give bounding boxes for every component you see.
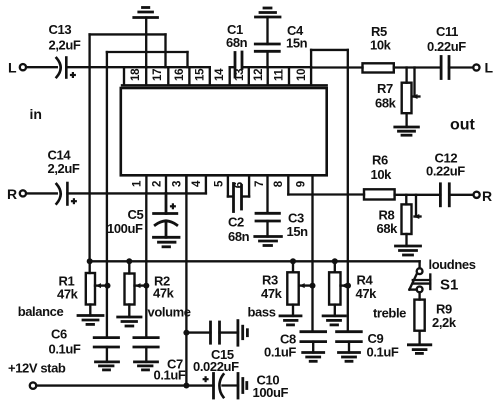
node R2 top junction	[126, 258, 132, 264]
ground (C3)	[255, 237, 282, 246]
wiper arrowhead R2	[135, 283, 141, 288]
wire R4 to ground	[334, 305, 336, 316]
resistor R7 (preset)	[402, 68, 420, 114]
wire stub to R8	[405, 195, 407, 205]
wire pin 4 edge down to +12V bus	[185, 175, 187, 385]
wire R1 to ground	[89, 305, 91, 316]
wire outer loop L input to pin 16	[90, 34, 166, 261]
pin box edges top row	[124, 67, 311, 85]
wire ground stem to pin 17	[145, 18, 147, 68]
svg-text:100uF: 100uF	[253, 385, 289, 400]
ground (R8)	[396, 246, 421, 255]
wire pin1/2 edge down through R2 wiper to C7	[145, 193, 147, 337]
svg-text:0.22uF: 0.22uF	[426, 164, 465, 179]
wiper arrowhead R4	[341, 283, 347, 288]
wire C9 to ground	[348, 342, 350, 353]
svg-text:L: L	[8, 60, 17, 76]
capacitor C5	[154, 193, 177, 237]
svg-text:17: 17	[152, 69, 164, 81]
svg-text:3: 3	[172, 181, 184, 187]
node R out terminal	[474, 192, 480, 198]
wire L input horizontal	[26, 66, 210, 68]
capacitor C12	[440, 184, 449, 206]
pin numbers bottom row	[132, 180, 308, 188]
svg-text:6: 6	[233, 182, 245, 188]
svg-text:C13: C13	[49, 22, 72, 37]
ground (C7)	[135, 362, 158, 370]
svg-text:+12V stab: +12V stab	[8, 361, 66, 376]
ground (R4)	[323, 316, 345, 325]
wire stub to R7	[405, 68, 407, 83]
ground (C10 sideways)	[238, 374, 247, 399]
capacitor C6	[94, 338, 118, 347]
ground (C6)	[96, 362, 119, 370]
wiper arrowhead R8	[414, 214, 420, 219]
wire R5 to C11 node	[394, 66, 441, 68]
wire R input horizontal	[26, 192, 206, 194]
svg-text:68n: 68n	[226, 35, 248, 50]
wire inner loop to pin 15	[107, 52, 188, 338]
svg-text:15n: 15n	[287, 224, 309, 239]
capacitor C1	[235, 52, 242, 77]
wire C10 to ground	[223, 384, 239, 386]
node L out terminal	[473, 64, 479, 70]
svg-text:R7: R7	[377, 81, 393, 96]
pin box edges bottom row	[146, 175, 206, 193]
svg-text:16: 16	[174, 69, 186, 81]
svg-text:0.1uF: 0.1uF	[154, 368, 186, 383]
capacitor C7	[134, 338, 158, 347]
svg-text:47k: 47k	[153, 286, 175, 301]
capacitor C3	[256, 213, 279, 221]
svg-text:68n: 68n	[228, 229, 250, 244]
label + C10	[203, 376, 209, 382]
node R1 wiper junction	[105, 283, 111, 289]
svg-text:in: in	[30, 106, 42, 122]
svg-text:R6: R6	[372, 153, 388, 168]
svg-text:2,2uF: 2,2uF	[49, 38, 81, 53]
ground (C9)	[339, 353, 360, 362]
wire pin 9 edge down to R3 wiper and C8	[311, 175, 313, 331]
capacitor C2	[234, 184, 242, 212]
pin 8 box edges	[268, 175, 289, 212]
svg-text:4: 4	[191, 180, 203, 187]
wiper arrowhead R3	[299, 283, 305, 288]
resistor R4 (treble pot)	[329, 261, 348, 304]
wire R9 to ground	[418, 331, 420, 345]
node R in terminal	[20, 190, 26, 196]
svg-text:2: 2	[152, 181, 164, 187]
svg-text:10: 10	[296, 69, 308, 81]
svg-text:0.1uF: 0.1uF	[264, 345, 296, 360]
op-amp IC U1 body	[121, 85, 327, 175]
svg-text:68k: 68k	[375, 96, 397, 111]
svg-text:14: 14	[214, 68, 226, 81]
ground (C15 sideways)	[238, 321, 248, 346]
wire C12 to R out	[449, 194, 473, 196]
wiper arrowhead R7	[412, 94, 418, 99]
svg-text:7: 7	[254, 181, 266, 187]
wire C11 to L out	[449, 66, 473, 68]
ground (above C4)	[256, 8, 281, 17]
capacitor C11	[441, 57, 449, 79]
resistor R5	[363, 63, 394, 72]
svg-text:C5: C5	[128, 207, 144, 222]
svg-text:13: 13	[234, 69, 246, 81]
svg-text:0.022uF: 0.022uF	[193, 359, 239, 374]
wire R3 to ground	[292, 305, 294, 316]
ground (above pin 17)	[134, 8, 158, 18]
svg-text:volume: volume	[148, 305, 191, 320]
svg-text:2,2uF: 2,2uF	[48, 161, 80, 176]
node +12V terminal	[30, 382, 36, 388]
ground (R1)	[78, 316, 103, 325]
resistor R8 (preset)	[402, 195, 421, 234]
svg-text:loudnes: loudnes	[429, 257, 476, 272]
wire pin 10 to R5	[311, 66, 362, 68]
svg-text:R: R	[482, 188, 492, 204]
wire C7 to ground	[145, 347, 147, 362]
svg-text:15: 15	[195, 68, 207, 81]
capacitor C14	[57, 183, 68, 205]
node R1 top junction	[87, 258, 93, 264]
svg-text:0.1uF: 0.1uF	[367, 345, 399, 360]
svg-text:10k: 10k	[370, 38, 392, 53]
wire C3 to ground	[266, 221, 268, 237]
ground (R3)	[280, 316, 301, 325]
wire S1 to R9	[418, 292, 420, 299]
capacitor C13	[57, 58, 67, 78]
resistor R9	[414, 300, 424, 331]
node +12V bus junction	[183, 383, 189, 389]
node R2 wiper junction	[143, 283, 149, 289]
label + C13	[70, 72, 76, 78]
svg-text:68k: 68k	[377, 221, 399, 236]
wire C4 stems	[266, 17, 268, 67]
wire R7 to ground	[405, 113, 407, 127]
pin 6 box	[228, 175, 249, 196]
svg-text:treble: treble	[373, 306, 406, 321]
wire C6 to ground	[106, 347, 108, 362]
svg-text:balance: balance	[18, 304, 64, 319]
wire top box row pins 13-10	[230, 66, 311, 68]
resistor R3 (bass pot)	[287, 261, 312, 304]
svg-text:15n: 15n	[286, 36, 308, 51]
label + C5	[170, 203, 176, 209]
svg-text:S1: S1	[440, 277, 458, 294]
label + C14	[71, 198, 77, 204]
capacitor C8	[301, 332, 326, 342]
svg-text:2,2k: 2,2k	[432, 315, 457, 330]
svg-text:C6: C6	[51, 327, 67, 342]
ground (R7)	[395, 127, 419, 135]
ground (R2)	[118, 317, 141, 326]
svg-text:47k: 47k	[356, 286, 378, 301]
svg-text:out: out	[450, 117, 476, 134]
node R3 wiper junction	[310, 283, 316, 289]
capacitor C10	[214, 374, 224, 399]
svg-text:9: 9	[295, 181, 307, 187]
resistor R6	[364, 189, 395, 199]
wire R8 to ground	[405, 234, 407, 246]
pin 9 box bottom and wire to R6	[288, 193, 364, 195]
wire bus R1..S1 (loudness bus)	[90, 260, 420, 262]
wire +12V bus	[37, 384, 214, 386]
capacitor C4	[255, 44, 279, 51]
resistor R1 (balance pot)	[86, 261, 108, 304]
capacitor C15	[186, 322, 238, 343]
svg-text:5: 5	[213, 180, 225, 187]
capacitor C9	[337, 332, 362, 342]
node L in terminal	[20, 64, 26, 70]
node R4 top junction	[332, 258, 338, 264]
svg-text:C2: C2	[228, 215, 244, 230]
node C15 junction	[183, 330, 189, 336]
wire R2 to ground	[128, 305, 130, 318]
svg-text:R: R	[7, 186, 17, 202]
svg-text:L: L	[485, 60, 494, 76]
wire R6 to C12 node	[395, 194, 441, 196]
resistor R2 (volume pot)	[125, 261, 147, 304]
svg-text:0.1uF: 0.1uF	[49, 342, 81, 357]
pin numbers top row	[130, 68, 308, 81]
wire C8 to ground	[312, 342, 314, 353]
node R4 wiper junction	[345, 283, 351, 289]
svg-text:47k: 47k	[57, 287, 79, 302]
svg-text:47k: 47k	[261, 286, 283, 301]
ground (C5)	[154, 237, 180, 247]
svg-text:8: 8	[273, 180, 285, 187]
wire pin 10 loop to right bus	[311, 50, 348, 332]
svg-text:C11: C11	[436, 24, 458, 39]
svg-text:1: 1	[132, 180, 144, 187]
wiper arrowhead R1	[96, 283, 102, 288]
svg-text:0.22uF: 0.22uF	[427, 39, 466, 54]
svg-text:11: 11	[273, 69, 285, 81]
ground (R9)	[408, 345, 430, 354]
switch S1 (loudness)	[409, 261, 430, 292]
svg-text:12: 12	[253, 69, 265, 81]
ground (C8)	[303, 353, 324, 362]
svg-text:100uF: 100uF	[107, 221, 143, 236]
svg-text:10k: 10k	[371, 167, 393, 182]
svg-text:bass: bass	[248, 305, 276, 320]
svg-text:18: 18	[130, 68, 142, 81]
node R3 top junction	[290, 258, 296, 264]
